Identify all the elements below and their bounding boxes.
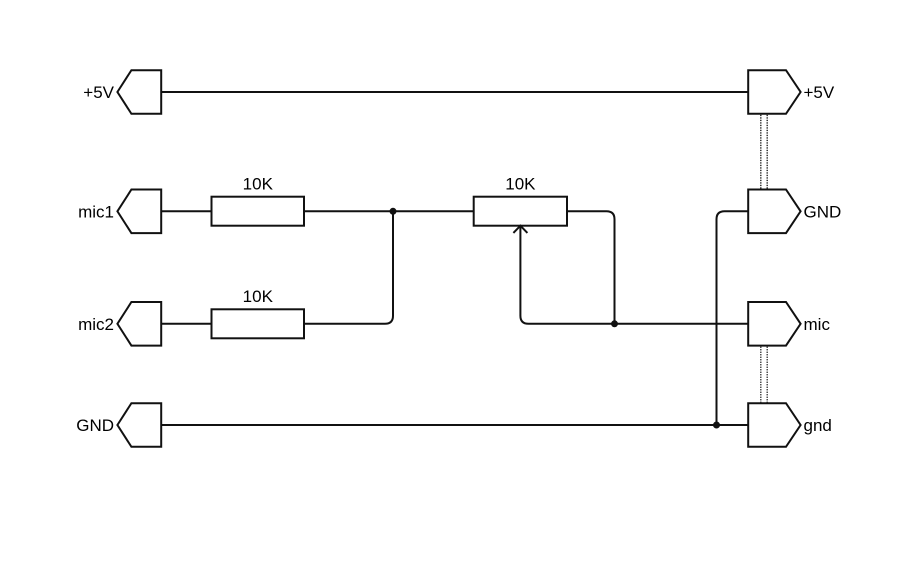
node C junction <box>713 422 720 429</box>
port GND left <box>117 403 161 447</box>
port gnd right <box>748 403 800 447</box>
port +5V right <box>748 70 800 114</box>
node B junction <box>611 320 618 327</box>
svg-text:+5V: +5V <box>804 83 835 102</box>
wire GND rail <box>161 424 748 426</box>
port +5V left <box>117 70 161 114</box>
svg-text:gnd: gnd <box>804 416 832 435</box>
wire +5V rail <box>161 91 748 93</box>
svg-text:mic: mic <box>804 315 831 334</box>
potentiometer R3 wiper arrow <box>513 226 527 233</box>
wire wiper to node B <box>520 226 614 324</box>
connector group dotted link mic/gnd <box>760 347 762 403</box>
resistor R1 10K <box>212 197 305 226</box>
node A junction <box>390 208 397 215</box>
connector group dotted link +5V/GND <box>760 115 762 189</box>
wire mic1 to R1 <box>161 210 211 212</box>
potentiometer R3 10K <box>474 197 567 226</box>
wire node B to mic port <box>615 323 749 325</box>
port mic2 left <box>117 302 161 346</box>
svg-text:GND: GND <box>76 416 114 435</box>
wire pot right to node B <box>567 211 615 323</box>
svg-text:GND: GND <box>804 203 842 222</box>
svg-text:+5V: +5V <box>83 83 114 102</box>
port mic1 left <box>117 190 161 234</box>
port GND right <box>748 190 800 234</box>
svg-text:10K: 10K <box>243 175 274 194</box>
wire R1 to pot <box>304 210 474 212</box>
svg-text:10K: 10K <box>505 175 536 194</box>
svg-text:10K: 10K <box>243 287 274 306</box>
wire R2 up to node A <box>304 211 393 323</box>
wire GND right port down to node C <box>717 211 749 425</box>
svg-text:mic2: mic2 <box>78 315 114 334</box>
resistor R2 10K <box>212 309 305 338</box>
port mic right <box>748 302 800 346</box>
wire mic2 to R2 <box>161 323 211 325</box>
svg-text:mic1: mic1 <box>78 203 114 222</box>
